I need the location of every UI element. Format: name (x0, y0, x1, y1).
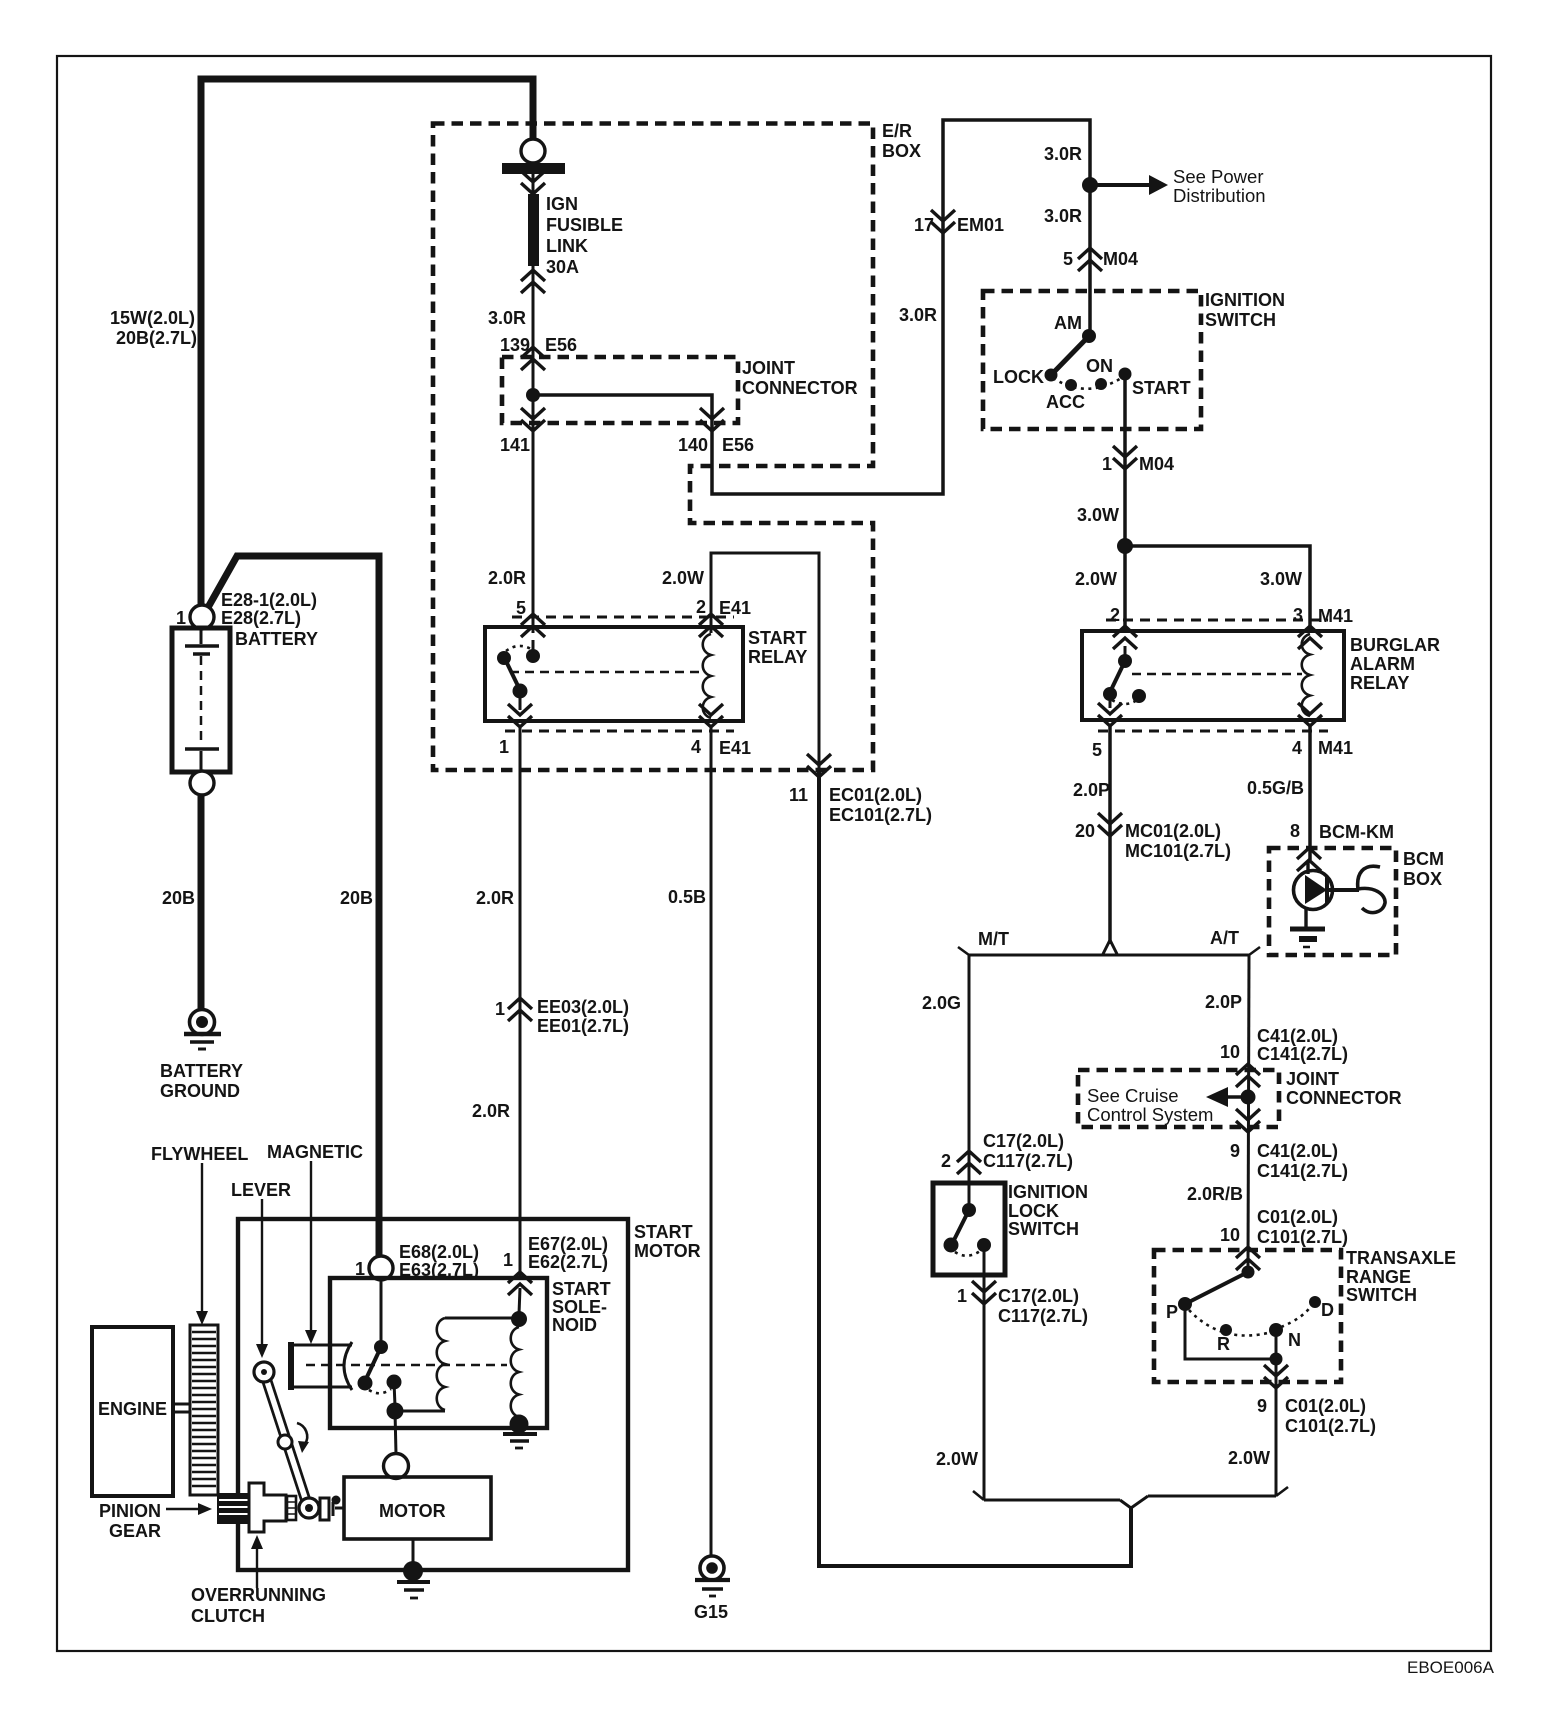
svg-text:C41(2.0L): C41(2.0L) (1257, 1141, 1338, 1161)
svg-text:2.0R/B: 2.0R/B (1187, 1184, 1243, 1204)
svg-text:LOCK: LOCK (993, 367, 1044, 387)
svg-text:START: START (1132, 378, 1191, 398)
wire start relay pin 4 to ground G15 (0.5B) (710, 727, 713, 1557)
connector E56 pin 140 (700, 408, 724, 431)
connector C17 pin 2 (957, 1151, 981, 1174)
svg-text:3.0W: 3.0W (1260, 569, 1302, 589)
svg-text:C17(2.0L): C17(2.0L) (998, 1286, 1079, 1306)
overrunning clutch (249, 1483, 296, 1532)
svg-text:1: 1 (1102, 454, 1112, 474)
fusible link F1 IGN FUSIBLE LINK 30A (502, 139, 623, 293)
svg-text:D: D (1321, 1300, 1334, 1320)
svg-text:E56: E56 (722, 435, 754, 455)
svg-text:M04: M04 (1103, 249, 1138, 269)
lever mechanism (254, 1362, 319, 1518)
svg-text:3: 3 (1293, 605, 1303, 625)
connector E56 pin 141 (521, 408, 545, 431)
wire battery negative to battery ground (20B) (198, 795, 205, 1010)
svg-text:RANGE: RANGE (1346, 1267, 1411, 1287)
node 3.0W junction (1117, 538, 1133, 554)
connector E41 pin 1 (508, 704, 532, 727)
svg-text:BCM: BCM (1403, 849, 1444, 869)
svg-text:141: 141 (500, 435, 530, 455)
connector C41 pin 9 (1236, 1109, 1260, 1132)
start solenoid (288, 1278, 611, 1454)
svg-text:E/R: E/R (882, 121, 912, 141)
connector BCM-KM pin 8 (1297, 848, 1321, 871)
svg-text:MC101(2.7L): MC101(2.7L) (1125, 841, 1231, 861)
svg-text:17: 17 (914, 215, 934, 235)
svg-text:4: 4 (1292, 738, 1302, 758)
svg-text:3.0R: 3.0R (1044, 144, 1082, 164)
svg-text:Distribution: Distribution (1173, 185, 1266, 206)
svg-text:2.0W: 2.0W (662, 568, 704, 588)
svg-text:See Cruise: See Cruise (1087, 1085, 1179, 1106)
svg-text:EE03(2.0L): EE03(2.0L) (537, 997, 629, 1017)
svg-text:RELAY: RELAY (1350, 673, 1409, 693)
svg-text:3.0R: 3.0R (488, 308, 526, 328)
svg-text:See Power: See Power (1173, 166, 1264, 187)
svg-text:EM01: EM01 (957, 215, 1004, 235)
svg-text:2.0P: 2.0P (1073, 780, 1110, 800)
engine to flywheel shaft (173, 1403, 190, 1406)
svg-text:PINION: PINION (99, 1501, 161, 1521)
svg-text:SWITCH: SWITCH (1205, 310, 1276, 330)
BCM box (1269, 848, 1396, 955)
svg-text:2.0W: 2.0W (1228, 1448, 1270, 1468)
svg-text:1: 1 (176, 608, 186, 628)
svg-text:20: 20 (1075, 821, 1095, 841)
connector C41 pin 10 (1236, 1064, 1260, 1087)
transaxle range switch SW3 (1154, 1248, 1456, 1382)
svg-text:C117(2.7L): C117(2.7L) (998, 1306, 1088, 1326)
wire relay pin 5 to M/T-A/T split (2.0P) (1108, 726, 1112, 944)
svg-text:E67(2.0L): E67(2.0L) (528, 1234, 608, 1254)
MOTOR (344, 1477, 491, 1539)
svg-text:FLYWHEEL: FLYWHEEL (151, 1144, 248, 1164)
svg-text:IGNITION: IGNITION (1205, 290, 1285, 310)
svg-text:E28(2.7L): E28(2.7L) (221, 608, 301, 628)
connector MC01 pin 20 (1098, 813, 1122, 836)
connector EE03 pin 1 (508, 998, 532, 1021)
arrow to See Cruise Control System (1227, 1095, 1248, 1098)
svg-text:BCM-KM: BCM-KM (1319, 822, 1394, 842)
svg-text:30A: 30A (546, 257, 579, 277)
svg-text:BURGLAR: BURGLAR (1350, 635, 1440, 655)
svg-text:E62(2.7L): E62(2.7L) (528, 1252, 608, 1272)
svg-text:ALARM: ALARM (1350, 654, 1415, 674)
connector pin 1 E67/E62 (508, 1272, 532, 1295)
connector E41 pin 2 (699, 614, 723, 637)
svg-text:M/T: M/T (978, 929, 1009, 949)
svg-text:9: 9 (1230, 1141, 1240, 1161)
svg-text:FUSIBLE: FUSIBLE (546, 215, 623, 235)
svg-text:C01(2.0L): C01(2.0L) (1257, 1207, 1338, 1227)
svg-text:Control System: Control System (1087, 1104, 1213, 1125)
motor ground (397, 1561, 430, 1598)
battery feed terminal on start solenoid (369, 1256, 393, 1280)
svg-text:SOLE-: SOLE- (552, 1297, 607, 1317)
svg-text:OVERRUNNING: OVERRUNNING (191, 1585, 326, 1605)
svg-text:C17(2.0L): C17(2.0L) (983, 1131, 1064, 1151)
svg-text:5: 5 (1063, 249, 1073, 269)
svg-text:MC01(2.0L): MC01(2.0L) (1125, 821, 1221, 841)
svg-text:11: 11 (789, 785, 808, 805)
svg-text:N: N (1288, 1330, 1301, 1350)
svg-text:0.5B: 0.5B (668, 887, 706, 907)
svg-text:9: 9 (1257, 1396, 1267, 1416)
connector M41 pin 4 (1298, 703, 1322, 726)
ENGINE box (92, 1327, 173, 1496)
svg-text:GROUND: GROUND (160, 1081, 240, 1101)
wire M/T branch to ignition lock switch (2.0G) (968, 955, 971, 1206)
transistor inside BCM box (1290, 862, 1385, 947)
svg-text:C01(2.0L): C01(2.0L) (1285, 1396, 1366, 1416)
svg-text:C41(2.0L): C41(2.0L) (1257, 1026, 1338, 1046)
wire relay pin 4 to BCM (0.5G/B) (1308, 726, 1312, 860)
connector C01 pin 10 (1236, 1247, 1260, 1270)
svg-text:139: 139 (500, 335, 530, 355)
svg-text:20B(2.7L): 20B(2.7L) (116, 328, 197, 348)
svg-text:E56: E56 (545, 335, 577, 355)
svg-text:IGNITION: IGNITION (1008, 1182, 1088, 1202)
svg-text:4: 4 (691, 737, 701, 757)
wire motor to ground (412, 1539, 415, 1568)
svg-text:1: 1 (957, 1286, 967, 1306)
svg-text:MOTOR: MOTOR (634, 1241, 701, 1261)
svg-text:R: R (1217, 1334, 1230, 1354)
node joint connector junction (526, 388, 540, 402)
ground G15 (694, 1556, 730, 1622)
connector E41 pin 5 (521, 614, 545, 637)
svg-text:START: START (634, 1222, 693, 1242)
svg-text:CONNECTOR: CONNECTOR (742, 378, 858, 398)
svg-text:SWITCH: SWITCH (1346, 1285, 1417, 1305)
svg-text:ACC: ACC (1046, 392, 1085, 412)
battery ground (160, 1010, 243, 1102)
svg-text:2.0R: 2.0R (472, 1101, 510, 1121)
start relay K1 (485, 627, 807, 721)
coupler between lever and motor shaft (320, 1496, 344, 1521)
svg-text:IGN: IGN (546, 194, 578, 214)
svg-text:MOTOR: MOTOR (379, 1501, 446, 1521)
svg-text:LOCK: LOCK (1008, 1201, 1059, 1221)
wire battery positive to start solenoid (20B) (206, 556, 379, 1258)
svg-text:3.0R: 3.0R (899, 305, 937, 325)
svg-text:3.0R: 3.0R (1044, 206, 1082, 226)
svg-text:CLUTCH: CLUTCH (191, 1606, 265, 1626)
wire A/T branch to transaxle range switch (2.0P/2.0R/B) (1248, 955, 1249, 1267)
wire start relay pin 1 to start solenoid (2.0R) (519, 727, 522, 1280)
svg-text:2: 2 (941, 1151, 951, 1171)
bus merge of M/T and A/T returns (973, 1487, 1288, 1508)
connector EC01 pin 11 (807, 754, 831, 777)
connector C17 pin 1 (972, 1281, 996, 1304)
svg-text:EBOE006A: EBOE006A (1407, 1658, 1495, 1677)
svg-text:2.0W: 2.0W (936, 1449, 978, 1469)
burglar alarm relay K2 (1082, 631, 1440, 720)
wire junction to relay pin 3 (3.0W) (1125, 546, 1310, 633)
svg-text:C101(2.7L): C101(2.7L) (1257, 1227, 1348, 1247)
svg-text:2.0R: 2.0R (488, 568, 526, 588)
svg-text:BATTERY: BATTERY (160, 1061, 243, 1081)
svg-text:3.0W: 3.0W (1077, 505, 1119, 525)
svg-text:LEVER: LEVER (231, 1180, 291, 1200)
svg-text:8: 8 (1290, 821, 1300, 841)
svg-text:MAGNETIC: MAGNETIC (267, 1142, 363, 1162)
battery B1 (172, 590, 318, 795)
svg-text:C101(2.7L): C101(2.7L) (1285, 1416, 1376, 1436)
label PINION GEAR with arrow (99, 1501, 212, 1541)
svg-text:RELAY: RELAY (748, 647, 807, 667)
arrow to See Power Distribution (1090, 183, 1150, 187)
svg-text:M41: M41 (1318, 738, 1353, 758)
label OVERRUNNING CLUTCH with arrow (191, 1535, 326, 1626)
wire battery positive to fusible link (15W/20B) (201, 79, 533, 605)
svg-text:M41: M41 (1318, 606, 1353, 626)
svg-text:5: 5 (516, 598, 526, 618)
svg-text:C117(2.7L): C117(2.7L) (983, 1151, 1073, 1171)
svg-text:2.0P: 2.0P (1205, 992, 1242, 1012)
svg-text:1: 1 (495, 999, 505, 1019)
svg-text:LINK: LINK (546, 236, 588, 256)
svg-text:G15: G15 (694, 1602, 728, 1622)
svg-text:C141(2.7L): C141(2.7L) (1257, 1044, 1348, 1064)
M/T A/T split node (958, 928, 1260, 955)
svg-text:0.5G/B: 0.5G/B (1247, 778, 1304, 798)
node joint connector C41 junction (1241, 1090, 1256, 1105)
rotation arrow near lever (297, 1423, 307, 1444)
svg-text:1: 1 (499, 737, 509, 757)
wire solenoid switch to motor terminal (384, 1454, 409, 1479)
svg-text:140: 140 (678, 435, 708, 455)
connector E41 pin 4 (699, 704, 723, 727)
svg-text:E41: E41 (719, 598, 751, 618)
svg-text:2: 2 (1110, 605, 1120, 625)
wire ignition switch START to burglar alarm relay (3.0W) (1123, 374, 1127, 633)
connector EM01 pin 17 (931, 210, 955, 233)
joint connector box (C41) (1078, 1070, 1279, 1127)
svg-text:ON: ON (1086, 356, 1113, 376)
svg-text:20B: 20B (162, 888, 195, 908)
start motor box (238, 1219, 628, 1570)
svg-text:A/T: A/T (1210, 928, 1239, 948)
connector M41 pin 3 (1298, 626, 1322, 649)
svg-text:10: 10 (1220, 1042, 1240, 1062)
svg-text:BATTERY: BATTERY (235, 629, 318, 649)
svg-text:JOINT: JOINT (1286, 1069, 1339, 1089)
svg-text:2.0W: 2.0W (1075, 569, 1117, 589)
svg-text:EE01(2.7L): EE01(2.7L) (537, 1016, 629, 1036)
svg-text:2: 2 (696, 597, 706, 617)
connector M04 pin 5 (1078, 248, 1102, 271)
svg-text:E28-1(2.0L): E28-1(2.0L) (221, 590, 317, 610)
svg-text:NOID: NOID (552, 1315, 597, 1335)
svg-text:START: START (552, 1279, 611, 1299)
svg-text:BOX: BOX (1403, 869, 1442, 889)
connector E56 pin 139 (521, 347, 545, 370)
svg-text:START: START (748, 628, 807, 648)
svg-text:15W(2.0L): 15W(2.0L) (110, 308, 195, 328)
svg-text:CONNECTOR: CONNECTOR (1286, 1088, 1402, 1108)
svg-text:C141(2.7L): C141(2.7L) (1257, 1161, 1348, 1181)
wire bus return to EC01 and start relay pin 2 (819, 772, 1131, 1566)
joint connector box (E56) (502, 357, 738, 423)
label MAGNETIC with arrow (267, 1142, 363, 1344)
wire fusible link to start relay pin 5 (3.0R/2.0R) (532, 162, 535, 633)
svg-text:BOX: BOX (882, 141, 921, 161)
svg-text:EC101(2.7L): EC101(2.7L) (829, 805, 932, 825)
ignition lock switch SW2 (933, 1182, 1088, 1275)
svg-text:E41: E41 (719, 738, 751, 758)
svg-text:E68(2.0L): E68(2.0L) (399, 1242, 479, 1262)
svg-text:SWITCH: SWITCH (1008, 1219, 1079, 1239)
connector C01 pin 9 (1264, 1365, 1288, 1388)
label LEVER with arrow (231, 1180, 291, 1358)
E/R box (433, 124, 873, 771)
wire joint connector to EM01 to ignition switch (3.0R) (533, 120, 1090, 494)
svg-text:2.0G: 2.0G (922, 993, 961, 1013)
svg-text:20B: 20B (340, 888, 373, 908)
svg-text:10: 10 (1220, 1225, 1240, 1245)
svg-text:AM: AM (1054, 313, 1082, 333)
flywheel ring gear (190, 1325, 218, 1495)
label FLYWHEEL with arrow (151, 1144, 248, 1325)
wire transaxle range switch to bus (2.0W) (1275, 1359, 1278, 1496)
svg-text:M04: M04 (1139, 454, 1174, 474)
svg-text:JOINT: JOINT (742, 358, 795, 378)
connector M41 pin 5 (1098, 703, 1122, 726)
svg-text:1: 1 (503, 1250, 513, 1270)
svg-text:5: 5 (1092, 740, 1102, 760)
ignition switch SW1 (983, 290, 1285, 429)
svg-text:ENGINE: ENGINE (98, 1399, 167, 1419)
svg-text:P: P (1166, 1302, 1178, 1322)
connector M41 pin 2 (1113, 626, 1137, 649)
node power distribution junction (1082, 177, 1098, 193)
svg-text:EC01(2.0L): EC01(2.0L) (829, 785, 922, 805)
svg-text:TRANSAXLE: TRANSAXLE (1346, 1248, 1456, 1268)
connector M04 pin 1 (1113, 446, 1137, 469)
pinion gear (217, 1493, 252, 1524)
svg-text:2.0R: 2.0R (476, 888, 514, 908)
svg-text:GEAR: GEAR (109, 1521, 161, 1541)
wire ignition lock switch to bus (2.0W) (983, 1245, 986, 1500)
